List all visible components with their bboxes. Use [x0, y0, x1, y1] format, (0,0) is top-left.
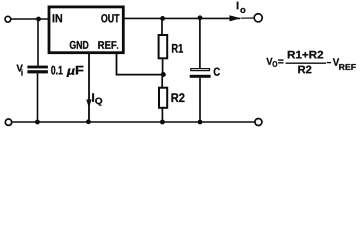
node: rail / input capacitor — [35, 120, 40, 125]
wire: R2 bottom lead — [161, 108, 163, 122]
capacitor 0.1uF bottom plate — [27, 70, 48, 73]
label Io (o subscript) — [240, 8, 245, 13]
resistor R1 — [159, 35, 168, 58]
resistor R2 — [159, 88, 167, 108]
node: rail / GND wire — [86, 119, 91, 124]
wire: REF pin down and right to divider tap — [117, 54, 164, 75]
label R2 — [172, 93, 185, 102]
ground terminal (bottom left) — [5, 119, 11, 125]
wire: input terminal to IN pin — [11, 18, 49, 20]
wire: arrow to output terminal — [241, 17, 254, 19]
value u (micro, italic) — [67, 68, 75, 77]
label R1 — [172, 44, 183, 53]
formula numerator R1+R2 — [288, 51, 323, 59]
arrow head Io — [230, 15, 241, 21]
wire: GND pin down to rail — [88, 54, 90, 123]
node: C top junction — [198, 15, 203, 20]
formula Vo (V) — [266, 58, 272, 65]
pin label REF — [98, 41, 116, 49]
output terminal (top right) — [254, 14, 262, 22]
formula Vo (O subscript) — [273, 61, 278, 67]
node: R1 top junction — [160, 16, 165, 21]
formula equals sign — [278, 60, 283, 64]
regulator U1 box — [49, 7, 123, 53]
capacitor C bottom lead — [199, 78, 201, 122]
value 0.1 — [51, 66, 62, 75]
wire: OUT pin to output arrow — [124, 17, 240, 19]
node: input capacitor junction — [36, 17, 41, 22]
label Vi (i subscript) — [21, 70, 22, 76]
input terminal (top left) — [5, 16, 11, 22]
node: rail / C — [198, 120, 203, 125]
formula fraction bar — [286, 62, 326, 64]
formula denominator R2 — [298, 66, 311, 74]
capacitor 0.1uF top plate — [27, 66, 48, 69]
capacitor C bottom plate — [190, 75, 211, 78]
capacitor 0.1uF top lead — [37, 19, 39, 66]
bottom rail — [12, 121, 254, 123]
wire: R2 top lead — [161, 75, 163, 88]
label IQ (Q subscript) — [95, 98, 102, 106]
label IQ (I) — [92, 93, 94, 101]
formula multiply dash — [327, 62, 331, 64]
period after REF pin label — [117, 47, 119, 49]
formula Vref (REF subscript) — [339, 64, 356, 70]
value F — [76, 66, 84, 75]
capacitor 0.1uF bottom lead — [37, 73, 39, 122]
output return terminal (bottom right) — [255, 119, 262, 126]
capacitor C top lead — [199, 18, 201, 68]
pin label IN — [53, 14, 62, 22]
pin label OUT — [101, 14, 119, 22]
wire: R1 top lead — [161, 18, 163, 34]
arrow head IQ (downward) — [86, 100, 91, 108]
node: REF / R1 / R2 junction — [161, 72, 166, 77]
formula Vref (V) — [333, 58, 339, 65]
node: rail / R2 — [160, 120, 165, 125]
wire: R1 bottom lead — [162, 58, 164, 74]
capacitor C top plate (hollow) — [191, 69, 210, 71]
label Io (I) — [237, 2, 239, 9]
label Vi (V) — [17, 65, 23, 72]
label C — [214, 68, 220, 76]
pin label GND — [70, 41, 89, 49]
